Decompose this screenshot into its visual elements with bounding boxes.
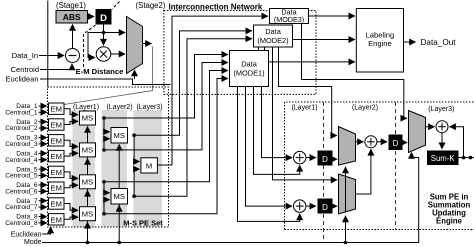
wire multiplier to mux input2 <box>111 53 125 55</box>
wire D output junction <box>103 25 105 33</box>
EM PE 1 <box>49 103 65 114</box>
subtractor circle <box>66 49 80 63</box>
wire EM1 to MS1 upper <box>64 109 78 115</box>
wire Data_7 <box>39 200 47 202</box>
M-S PE Set dotted box <box>48 87 169 227</box>
wire MODE1 pin3 to top adder south <box>254 87 300 174</box>
wire SumK feedback to A4 east <box>450 127 464 158</box>
svg-text:(Layer3): (Layer3) <box>136 104 162 111</box>
wire Data_In <box>39 55 64 57</box>
shading layer1 band <box>73 110 96 227</box>
wire MODE2 to labeling <box>293 39 355 41</box>
svg-text:D: D <box>393 139 399 148</box>
svg-text:M: M <box>146 162 152 171</box>
L2 lower mux <box>339 174 356 214</box>
EM PE 2 <box>49 119 65 130</box>
svg-text:(Layer3): (Layer3) <box>428 106 454 113</box>
wire MSL2t to M upper <box>134 135 139 161</box>
wire Centroid_1 <box>39 111 47 113</box>
svg-text:(MODE1): (MODE1) <box>233 69 264 78</box>
E-M mux <box>127 17 143 74</box>
wire D3 to L3 mux <box>403 142 408 144</box>
wire Data_3 <box>39 137 47 139</box>
wire MS4 to MSL2b lower <box>104 200 110 214</box>
svg-text:Centroid_3: Centroid_3 <box>5 141 38 148</box>
wire ABS to D <box>88 16 95 18</box>
staircase wire MSL2b to MODE2 <box>134 39 252 197</box>
wire EM8 to MS4 lower <box>64 217 78 219</box>
Data MODE3 box <box>270 9 309 24</box>
wire Centroid <box>40 64 72 70</box>
svg-text:EM: EM <box>51 168 62 177</box>
dashed separator sum L1/L2 <box>323 102 325 242</box>
EM PE 5 <box>49 166 65 177</box>
wire L3 mux to A4 <box>426 126 435 128</box>
EM PE 7 <box>49 198 65 209</box>
wire lower mux to A3 south <box>356 149 371 194</box>
wire MODE1 pin4 to top adder west <box>262 87 293 158</box>
multiplier circle <box>96 47 111 62</box>
wire MODE3 pin to L3 mux top <box>302 24 407 119</box>
wire Centroid_3 <box>39 143 47 145</box>
wire SumK output <box>459 157 474 159</box>
junction dots on bus <box>86 241 90 245</box>
staircase wire MS1 to MODE1 <box>104 55 228 119</box>
svg-text:D: D <box>322 203 328 212</box>
svg-text:Centroid_2: Centroid_2 <box>5 125 38 132</box>
wire junction to multiplier left <box>88 33 104 58</box>
wire A3 to D3 <box>377 141 387 143</box>
Labeling Engine box <box>356 9 403 73</box>
svg-text:EM: EM <box>51 200 62 209</box>
wire Euclidean to mux select and MODE1 <box>40 79 171 85</box>
L2 adder A3 <box>365 136 377 148</box>
staircase wire M to MODE3 <box>158 16 268 165</box>
interconnection network dotted box <box>164 11 316 95</box>
wire mux select riser <box>134 70 136 79</box>
svg-text:Centroid_8: Centroid_8 <box>5 220 38 227</box>
EM PE 8 <box>49 214 65 225</box>
wire EM2 to MS1 lower <box>64 121 78 124</box>
svg-text:(Layer1): (Layer1) <box>291 105 317 112</box>
svg-text:MS: MS <box>82 114 93 123</box>
svg-text:Centroid_5: Centroid_5 <box>5 173 38 180</box>
svg-text:EM: EM <box>51 152 62 161</box>
staircase wire MS3 to MODE1 <box>104 71 228 182</box>
L3 adder A4 <box>436 121 448 133</box>
svg-text:Centroid: Centroid <box>11 65 39 74</box>
wire Centroid_6 <box>39 190 47 192</box>
L2 top mux <box>339 127 356 166</box>
MS2 box <box>80 143 96 157</box>
svg-text:Centroid_6: Centroid_6 <box>5 188 38 195</box>
SumK box <box>427 151 459 166</box>
staircase wire MSL2t to MODE2 <box>134 31 252 135</box>
svg-text:(Layer2): (Layer2) <box>352 105 378 112</box>
shading layer2 band <box>102 110 128 227</box>
wire EM3 to MS2 upper <box>64 140 78 146</box>
svg-text:D: D <box>322 155 328 164</box>
top adder A1 <box>294 151 306 163</box>
wire Centroid_8 <box>39 222 47 224</box>
svg-text:D: D <box>100 13 107 24</box>
svg-text:Centroid_7: Centroid_7 <box>5 204 38 211</box>
svg-text:(Layer2): (Layer2) <box>106 104 132 111</box>
wire Euclidean bottom to EM8 <box>42 227 51 234</box>
wire MODE2 pin to L2 lower mux <box>273 47 338 180</box>
EM PE 6 <box>49 182 65 193</box>
wire Data_8 <box>39 216 47 218</box>
svg-text:Centroid_1: Centroid_1 <box>5 109 38 116</box>
riser sum L2 mux selects <box>345 216 347 243</box>
register D1 <box>318 151 333 166</box>
svg-text:Data: Data <box>265 27 282 36</box>
EM PE 3 <box>49 135 65 146</box>
staircase wire MS4 to MODE1 <box>104 79 228 214</box>
wire MODE3 to labeling <box>309 15 355 17</box>
wire labeling to Data_Out <box>404 41 416 43</box>
Data MODE2 box <box>254 25 293 47</box>
bottom adder A2 <box>294 200 306 212</box>
wire MODE2 to MODE1 stub2 <box>264 47 266 51</box>
svg-text:Data_In: Data_In <box>12 51 38 60</box>
svg-text:MS: MS <box>114 131 125 140</box>
wire A2 to D2 <box>306 205 316 207</box>
svg-text:EM: EM <box>51 105 62 114</box>
wire junction to mux input1 <box>104 32 126 34</box>
dashed separator sum L2/L3 <box>395 102 397 230</box>
wire MS1 to MSL2t upper <box>104 118 110 132</box>
wire Centroid_5 <box>39 175 47 177</box>
register D3 <box>389 135 403 151</box>
register D2 <box>318 199 333 214</box>
wire MODE1 pin2 to bottom adder west <box>246 87 293 206</box>
wire Data_6 <box>39 184 47 186</box>
wire A4 to SumK <box>441 133 443 149</box>
svg-text:EM: EM <box>51 121 62 130</box>
wire D1 to L2 top mux <box>333 158 338 160</box>
svg-text:EM: EM <box>51 215 62 224</box>
svg-text:MS: MS <box>82 209 93 218</box>
svg-text:Mode: Mode <box>24 239 42 246</box>
M box <box>141 158 158 173</box>
wire MS2 to MSL2t lower <box>104 139 110 150</box>
svg-text:MS: MS <box>82 178 93 187</box>
wire mux output <box>143 43 152 45</box>
svg-text:M-S PE Set: M-S PE Set <box>123 219 163 228</box>
svg-text:MS: MS <box>82 146 93 155</box>
wire D2 to L2 lower mux <box>333 205 338 207</box>
Data MODE1 box <box>230 51 269 87</box>
svg-text:Sum-K: Sum-K <box>431 154 456 163</box>
MS1 box <box>80 111 96 125</box>
wire MODE1 to labeling <box>269 61 355 63</box>
wire subtractor to ABS <box>72 25 74 49</box>
wire MODE1 pin1 to bottom adder south <box>238 87 300 221</box>
register D (stage boundary) <box>96 9 112 25</box>
svg-text:Data_Out: Data_Out <box>421 38 457 47</box>
svg-text:MS: MS <box>114 192 125 201</box>
svg-text:Data: Data <box>241 60 258 69</box>
MS3 box <box>80 175 96 189</box>
svg-text:Engine: Engine <box>368 39 392 48</box>
wire EM5 to MS3 upper <box>64 172 78 179</box>
wire Centroid_4 <box>39 159 47 161</box>
wire junction to multiplier top <box>103 33 105 46</box>
wire Centroid_2 <box>39 127 47 129</box>
wire MODE2 to MODE1 stub1 <box>258 47 260 51</box>
svg-text:(Stage2): (Stage2) <box>136 1 166 10</box>
svg-text:(Stage1): (Stage1) <box>56 1 86 10</box>
shading layer3 band <box>134 110 163 227</box>
MS L2 bottom box <box>111 189 128 205</box>
wire MS3 to MSL2b upper <box>104 182 110 193</box>
riser MS L2 selects <box>118 145 120 243</box>
wire EM7 to MS4 upper <box>64 204 78 211</box>
wire MODE2 pin to L2 top mux <box>279 47 337 136</box>
L3 mux <box>409 111 426 153</box>
svg-text:EM: EM <box>51 136 62 145</box>
wire A1 to D1 <box>306 157 316 159</box>
svg-text:Engine: Engine <box>436 217 463 226</box>
wire Data_5 <box>39 168 47 170</box>
MS4 box <box>80 207 96 221</box>
ABS box <box>56 11 88 24</box>
wedge projection line right diagonal <box>64 47 153 105</box>
riser MS L1 selects <box>87 127 89 243</box>
sum pe dotted box <box>285 102 474 230</box>
wire EM6 to MS3 lower <box>64 185 78 188</box>
svg-text:ABS: ABS <box>63 12 81 22</box>
MS L2 top box <box>111 128 128 144</box>
svg-text:Euclidean: Euclidean <box>6 75 39 84</box>
dashed stage separator <box>112 2 120 10</box>
wire top mux to A3 <box>356 141 364 143</box>
svg-text:(Layer1): (Layer1) <box>73 104 99 111</box>
svg-text:Euclidean: Euclidean <box>11 232 42 239</box>
wedge projection line left <box>47 1 49 88</box>
svg-text:E-M Distance: E-M Distance <box>76 67 124 76</box>
wire Data_4 <box>39 152 47 154</box>
svg-text:(MODE3): (MODE3) <box>274 15 304 24</box>
svg-text:EM: EM <box>51 184 62 193</box>
mode bus bottom <box>42 153 419 243</box>
wire EM4 to MS2 lower <box>64 153 78 156</box>
svg-text:Centroid_4: Centroid_4 <box>5 157 38 164</box>
EM PE 4 <box>49 150 65 161</box>
wire Centroid_7 <box>39 206 47 208</box>
svg-text:Interconnection Network: Interconnection Network <box>169 3 263 12</box>
staircase wire MS2 to MODE1 <box>104 63 228 150</box>
wire Data_1 <box>39 105 47 107</box>
wire Data_2 <box>39 121 47 123</box>
wire MSL2b to M lower <box>134 169 139 196</box>
svg-text:(MODE2): (MODE2) <box>257 36 288 45</box>
